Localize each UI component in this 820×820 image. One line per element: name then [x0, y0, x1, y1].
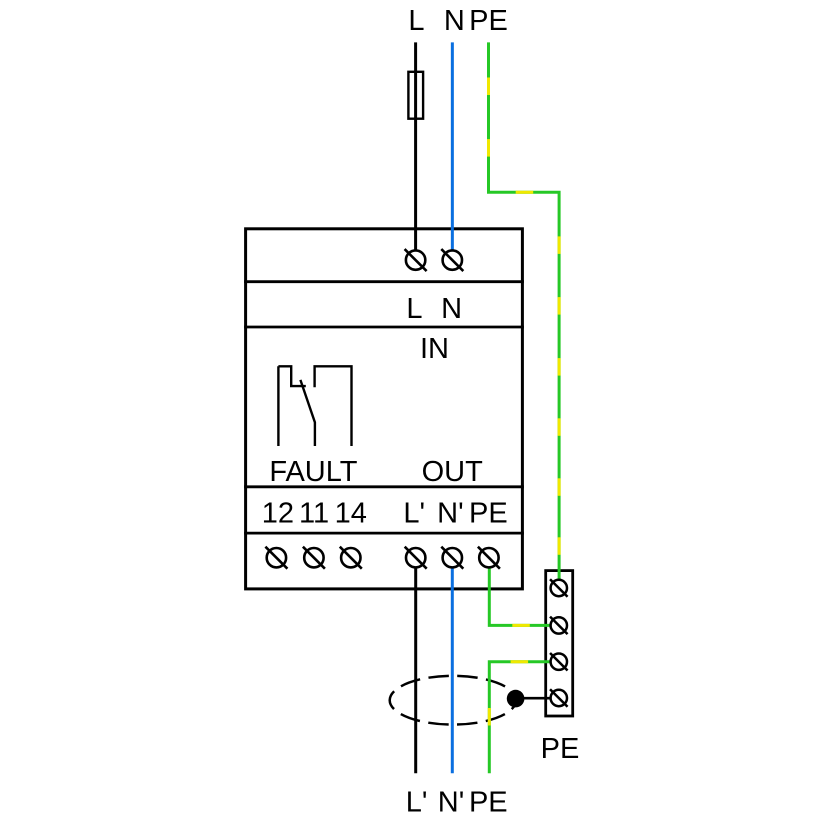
- svg-text:FAULT: FAULT: [269, 456, 357, 488]
- PE block terminal 1 (circle): [550, 579, 568, 597]
- PE yellow dash: [487, 78, 490, 96]
- PE yellow dash: [516, 191, 534, 194]
- wire L' (bottom, black): [414, 567, 417, 773]
- svg-text:IN: IN: [420, 333, 449, 365]
- terminal 11 (circle): [303, 547, 325, 569]
- wire N' (bottom, blue): [451, 567, 454, 773]
- relay contact 12 line: [277, 366, 279, 446]
- svg-text:PE: PE: [469, 497, 508, 529]
- PE yellow dash: [488, 708, 491, 726]
- svg-text:14: 14: [335, 497, 367, 529]
- wire PE out to block terminal 2: [489, 567, 550, 626]
- PE yellow dash: [558, 537, 561, 555]
- svg-text:N: N: [444, 5, 465, 37]
- divider line 3: [244, 485, 524, 488]
- PE block terminal 2 (circle): [550, 617, 568, 635]
- shield junction dot: [507, 690, 525, 708]
- terminal N' out (circle): [441, 547, 463, 569]
- svg-text:12: 12: [262, 497, 294, 529]
- divider line 1: [244, 280, 524, 283]
- terminal PE out (circle): [478, 547, 500, 569]
- wire PE (top, green/yellow): [489, 42, 560, 581]
- device box: [246, 229, 523, 589]
- terminal 12 (circle): [265, 547, 287, 569]
- wire PE block terminal 3 to bottom: [489, 662, 550, 774]
- terminal L' out (circle): [405, 547, 427, 569]
- relay NO fixed contact: [315, 366, 352, 446]
- svg-text:PE: PE: [469, 5, 508, 37]
- PE yellow dash: [512, 624, 530, 627]
- PE yellow dash: [511, 660, 528, 663]
- shield to PE wire: [516, 697, 551, 700]
- wire N (top, blue): [451, 42, 454, 250]
- svg-text:L': L': [403, 497, 425, 529]
- svg-text:L': L': [406, 787, 428, 819]
- relay NC fixed contact hook: [278, 366, 305, 386]
- divider line 4: [244, 532, 524, 535]
- svg-text:N: N: [441, 293, 462, 325]
- PE block terminal 3 (circle): [550, 653, 568, 671]
- cable screen ellipse: [390, 676, 516, 725]
- svg-text:L: L: [408, 5, 424, 37]
- divider line 2: [244, 326, 524, 329]
- PE yellow dash: [558, 236, 561, 254]
- terminal 14 (circle): [340, 547, 362, 569]
- svg-text:PE: PE: [469, 787, 508, 819]
- svg-text:PE: PE: [541, 733, 580, 765]
- fuse F1: [408, 72, 423, 119]
- PE yellow dash: [558, 478, 561, 496]
- svg-text:OUT: OUT: [422, 456, 484, 488]
- PE yellow dash: [558, 418, 561, 436]
- terminal N in (circle): [441, 249, 463, 271]
- terminal L in (circle): [405, 249, 427, 271]
- svg-text:11: 11: [299, 497, 329, 529]
- wire L (top, black): [414, 42, 417, 250]
- PE block terminal 4 (circle): [550, 689, 568, 707]
- PE yellow dash: [558, 297, 561, 315]
- svg-text:L: L: [406, 293, 422, 325]
- svg-text:N': N': [438, 787, 464, 819]
- PE terminal block: [546, 571, 573, 716]
- relay moving contact 11: [300, 380, 315, 446]
- PE yellow dash: [487, 139, 490, 157]
- PE yellow dash: [558, 358, 561, 376]
- svg-text:N': N': [437, 497, 463, 529]
